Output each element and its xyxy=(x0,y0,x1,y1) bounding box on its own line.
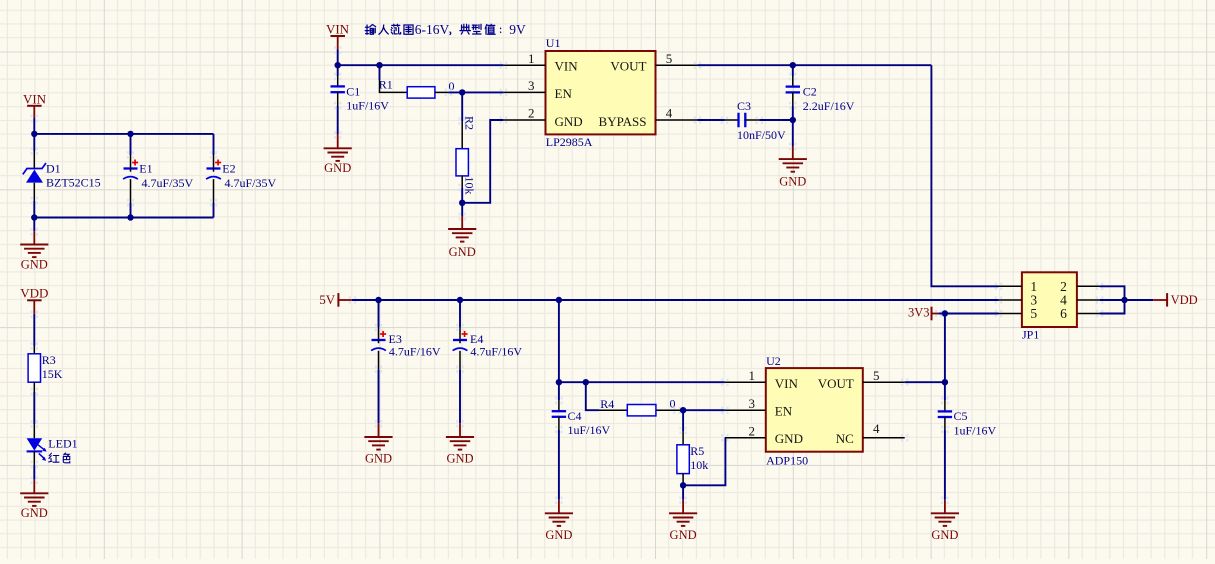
wire xyxy=(1100,299,1154,301)
capacitor E4 4.7uF/16V xyxy=(453,300,523,423)
junction xyxy=(556,379,562,385)
svg-text:ADP150: ADP150 xyxy=(766,453,808,467)
junction xyxy=(680,482,686,488)
resistor R3 15K xyxy=(28,342,63,395)
svg-text:3: 3 xyxy=(528,78,535,93)
ground xyxy=(446,420,474,466)
label red-color (Chinese) xyxy=(49,453,70,463)
wire 5V rail xyxy=(352,299,999,301)
svg-text:6-16V: 6-16V xyxy=(415,22,450,37)
svg-text:10nF/50V: 10nF/50V xyxy=(737,128,786,142)
junction xyxy=(127,214,133,220)
capacitor E3 4.7uF/16V xyxy=(371,300,441,423)
svg-text:GND: GND xyxy=(365,452,392,466)
ground xyxy=(779,143,807,189)
svg-text:GND: GND xyxy=(670,528,697,542)
svg-text:JP1: JP1 xyxy=(1022,327,1039,341)
svg-text:R1: R1 xyxy=(379,77,393,91)
svg-text:C3: C3 xyxy=(737,99,751,113)
svg-text:U2: U2 xyxy=(766,354,781,368)
svg-text:VIN: VIN xyxy=(555,59,579,74)
svg-text:4.7uF/16V: 4.7uF/16V xyxy=(470,345,522,359)
junction xyxy=(556,297,562,303)
wire xyxy=(938,313,998,315)
annotation: input range 6-16V, typical 9V xyxy=(365,22,526,37)
junction xyxy=(942,379,948,385)
svg-text:LED1: LED1 xyxy=(48,437,77,451)
wire xyxy=(338,64,504,66)
resistor R1 xyxy=(379,65,449,98)
JP1 pin 1 xyxy=(995,279,1037,294)
resistor R4 xyxy=(586,382,683,416)
U1 pin 1 xyxy=(500,51,546,69)
svg-text:2: 2 xyxy=(749,423,756,438)
wire xyxy=(33,118,35,134)
svg-text:4.7uF/35V: 4.7uF/35V xyxy=(225,176,277,190)
svg-text:BYPASS: BYPASS xyxy=(599,114,647,129)
power port VDD (right) xyxy=(1153,293,1197,307)
svg-text:5: 5 xyxy=(666,51,673,66)
svg-text:GND: GND xyxy=(21,258,48,272)
svg-text:R4: R4 xyxy=(600,397,614,411)
svg-text:4.7uF/16V: 4.7uF/16V xyxy=(389,345,441,359)
junction xyxy=(457,297,463,303)
svg-text:EN: EN xyxy=(555,86,573,101)
wire xyxy=(34,133,213,135)
svg-text:1: 1 xyxy=(528,51,535,66)
svg-text:VIN: VIN xyxy=(775,376,799,391)
svg-text:4: 4 xyxy=(873,421,880,436)
svg-text:E1: E1 xyxy=(139,162,152,176)
svg-text:1uF/16V: 1uF/16V xyxy=(568,423,611,437)
svg-text:EN: EN xyxy=(775,403,793,418)
junction xyxy=(583,379,589,385)
ground xyxy=(20,228,48,272)
junction xyxy=(375,297,381,303)
wire xyxy=(683,438,725,486)
junction xyxy=(942,310,948,316)
junction xyxy=(1121,297,1127,303)
power port VDD (left) xyxy=(20,285,48,314)
svg-text:GND: GND xyxy=(555,114,583,129)
LED LED1 (red) xyxy=(27,420,78,468)
U2 pin 1 xyxy=(721,368,766,386)
svg-text:C2: C2 xyxy=(803,85,817,99)
svg-text:GND: GND xyxy=(21,506,48,520)
wire xyxy=(697,119,724,121)
svg-text:4.7uF/35V: 4.7uF/35V xyxy=(142,176,194,190)
svg-text:15K: 15K xyxy=(42,367,63,381)
wire xyxy=(461,188,463,203)
resistor R2 10k xyxy=(456,92,476,194)
svg-text:VIN: VIN xyxy=(326,22,350,37)
svg-text:3: 3 xyxy=(749,396,756,411)
JP1 pin 4 xyxy=(1060,293,1103,308)
svg-text:10k: 10k xyxy=(690,458,708,472)
power port 5V xyxy=(319,292,352,307)
IC U2 ADP150 regulator xyxy=(766,354,863,467)
svg-text:GND: GND xyxy=(775,431,803,446)
svg-text:2: 2 xyxy=(528,106,535,121)
wire xyxy=(944,314,946,383)
JP1 pin 5 xyxy=(995,306,1038,321)
svg-text:LP2985A: LP2985A xyxy=(546,135,593,149)
resistor R5 10k xyxy=(677,410,708,485)
wire xyxy=(558,300,560,382)
svg-text:C4: C4 xyxy=(568,409,582,423)
wire xyxy=(33,218,35,232)
connector JP1 xyxy=(1022,272,1077,341)
ground xyxy=(931,497,959,542)
junction xyxy=(31,131,37,137)
svg-text:VIN: VIN xyxy=(23,92,47,107)
junction xyxy=(790,117,796,123)
diode D1 (zener BZT52C15) xyxy=(23,147,101,204)
capacitor E2 4.7uF/35V xyxy=(206,134,276,218)
U2 pin 5 xyxy=(863,368,909,386)
capacitor C1 1uF/16V xyxy=(331,65,390,134)
wire xyxy=(34,217,213,219)
ground xyxy=(545,497,573,542)
ground xyxy=(448,203,476,259)
wire xyxy=(792,120,794,146)
U1 pin 3 xyxy=(500,78,546,96)
svg-text:GND: GND xyxy=(931,528,958,542)
svg-text:1uF/16V: 1uF/16V xyxy=(954,423,997,437)
svg-text:D1: D1 xyxy=(46,162,61,176)
U2 pin 2 xyxy=(721,423,766,441)
ground xyxy=(364,420,392,466)
power port VIN (left) xyxy=(23,92,47,119)
svg-text:U1: U1 xyxy=(546,36,561,50)
capacitor C5 1uF/16V xyxy=(938,382,997,500)
svg-text:9V: 9V xyxy=(509,22,526,37)
U1 pin 4 xyxy=(656,106,702,124)
U2 pin 3 xyxy=(721,396,766,414)
wire xyxy=(33,392,35,424)
svg-text:VOUT: VOUT xyxy=(818,376,854,391)
junction xyxy=(376,62,382,68)
svg-text:GND: GND xyxy=(449,245,476,259)
capacitor E1 4.7uF/35V xyxy=(123,134,193,218)
U1 pin 2 xyxy=(500,106,546,124)
JP1 pin 3 xyxy=(995,293,1038,308)
U1 pin 5 xyxy=(656,51,702,69)
svg-text:4: 4 xyxy=(666,106,673,121)
svg-text:VDD: VDD xyxy=(1171,293,1198,307)
svg-text:1: 1 xyxy=(749,368,756,383)
wire xyxy=(462,120,503,203)
capacitor C2 2.2uF/16V xyxy=(786,65,855,120)
svg-text:R2: R2 xyxy=(462,116,476,130)
capacitor C4 1uF/16V xyxy=(552,382,611,500)
svg-text:C5: C5 xyxy=(954,409,968,423)
svg-text:VDD: VDD xyxy=(20,285,48,300)
junction xyxy=(790,62,796,68)
wire xyxy=(697,64,931,66)
IC U1 LP2985A regulator xyxy=(546,36,656,149)
wire xyxy=(33,201,35,218)
wire xyxy=(33,314,35,346)
junction xyxy=(459,89,465,95)
svg-text:1uF/16V: 1uF/16V xyxy=(346,99,389,113)
svg-text:GND: GND xyxy=(446,452,473,466)
svg-text:VOUT: VOUT xyxy=(610,59,646,74)
svg-text:3V3: 3V3 xyxy=(908,305,930,319)
junction xyxy=(127,131,133,137)
svg-text:R5: R5 xyxy=(690,444,704,458)
svg-text:R3: R3 xyxy=(42,353,56,367)
wire xyxy=(337,50,339,66)
capacitor C3 10nF/50V xyxy=(721,99,793,142)
svg-text:6: 6 xyxy=(1060,306,1067,321)
svg-text:BZT52C15: BZT52C15 xyxy=(46,175,101,189)
svg-text:2.2uF/16V: 2.2uF/16V xyxy=(803,99,855,113)
ground xyxy=(324,131,352,175)
junction xyxy=(31,214,37,220)
wire xyxy=(905,381,945,383)
wire xyxy=(683,409,725,411)
wire xyxy=(1100,286,1125,313)
svg-text:5: 5 xyxy=(873,368,880,383)
wire xyxy=(559,381,725,383)
svg-text:5V: 5V xyxy=(319,292,336,307)
power port 3V3 xyxy=(908,305,938,320)
svg-text:5: 5 xyxy=(1030,306,1037,321)
svg-text:10k: 10k xyxy=(462,177,476,195)
junction xyxy=(680,407,686,413)
power port VIN (top) xyxy=(326,22,350,50)
wire xyxy=(931,65,998,286)
junction xyxy=(335,62,341,68)
svg-text:GND: GND xyxy=(779,175,806,189)
svg-text:GND: GND xyxy=(545,528,572,542)
JP1 pin 2 xyxy=(1060,279,1103,294)
wire xyxy=(448,91,503,93)
svg-text:E2: E2 xyxy=(222,162,235,176)
svg-text:C1: C1 xyxy=(346,85,360,99)
JP1 pin 6 xyxy=(1060,306,1103,321)
svg-text:NC: NC xyxy=(836,431,854,446)
ground xyxy=(20,477,48,521)
wire xyxy=(33,134,35,151)
wire xyxy=(33,465,35,480)
U2 pin 4 (NC) xyxy=(863,421,909,442)
svg-text:GND: GND xyxy=(324,161,351,175)
ground xyxy=(669,485,697,542)
junction xyxy=(459,200,465,206)
